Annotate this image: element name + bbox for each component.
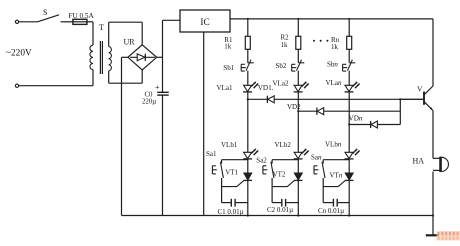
svg-text:IC: IC — [200, 18, 209, 28]
svg-text:VLb1: VLb1 — [221, 141, 238, 149]
svg-text:1k: 1k — [281, 41, 289, 49]
svg-text:HA: HA — [413, 157, 425, 166]
svg-text:VLan: VLan — [326, 79, 342, 87]
svg-text:C1 0.01µ: C1 0.01µ — [218, 208, 244, 216]
svg-text:VLa1: VLa1 — [217, 84, 233, 92]
svg-text:San: San — [311, 153, 322, 161]
svg-text:+: + — [155, 83, 160, 92]
svg-text:V: V — [417, 85, 423, 94]
svg-text:VLa2: VLa2 — [273, 80, 289, 88]
svg-text:VD2: VD2 — [287, 103, 301, 111]
svg-text:FU 0.5A: FU 0.5A — [69, 12, 95, 20]
svg-text:Sa1: Sa1 — [206, 150, 217, 158]
svg-text:UR: UR — [124, 38, 136, 47]
svg-text:1k: 1k — [224, 43, 232, 51]
svg-text:Sb2: Sb2 — [276, 62, 287, 70]
svg-text:C0: C0 — [145, 92, 154, 99]
svg-text:VT2: VT2 — [273, 170, 286, 178]
svg-text:VDn: VDn — [349, 115, 363, 123]
svg-text:S: S — [43, 8, 47, 17]
svg-text:T: T — [99, 23, 104, 32]
svg-text:VD1.: VD1. — [258, 84, 274, 92]
svg-text:VLbn: VLbn — [325, 140, 342, 148]
svg-text:220µ: 220µ — [142, 99, 156, 106]
svg-text:VLb2: VLb2 — [275, 141, 292, 149]
svg-text:1k: 1k — [331, 43, 339, 51]
svg-text:Sb1: Sb1 — [223, 64, 234, 72]
svg-text:Sa2: Sa2 — [256, 157, 267, 165]
svg-text:VT1: VT1 — [225, 168, 238, 176]
svg-text:VTn: VTn — [330, 172, 343, 180]
svg-text:Cn 0.01µ: Cn 0.01µ — [318, 207, 344, 215]
svg-text:~220V: ~220V — [6, 49, 32, 59]
svg-text:Sbn: Sbn — [327, 61, 338, 69]
svg-text:C2 0.01µ: C2 0.01µ — [267, 206, 293, 214]
